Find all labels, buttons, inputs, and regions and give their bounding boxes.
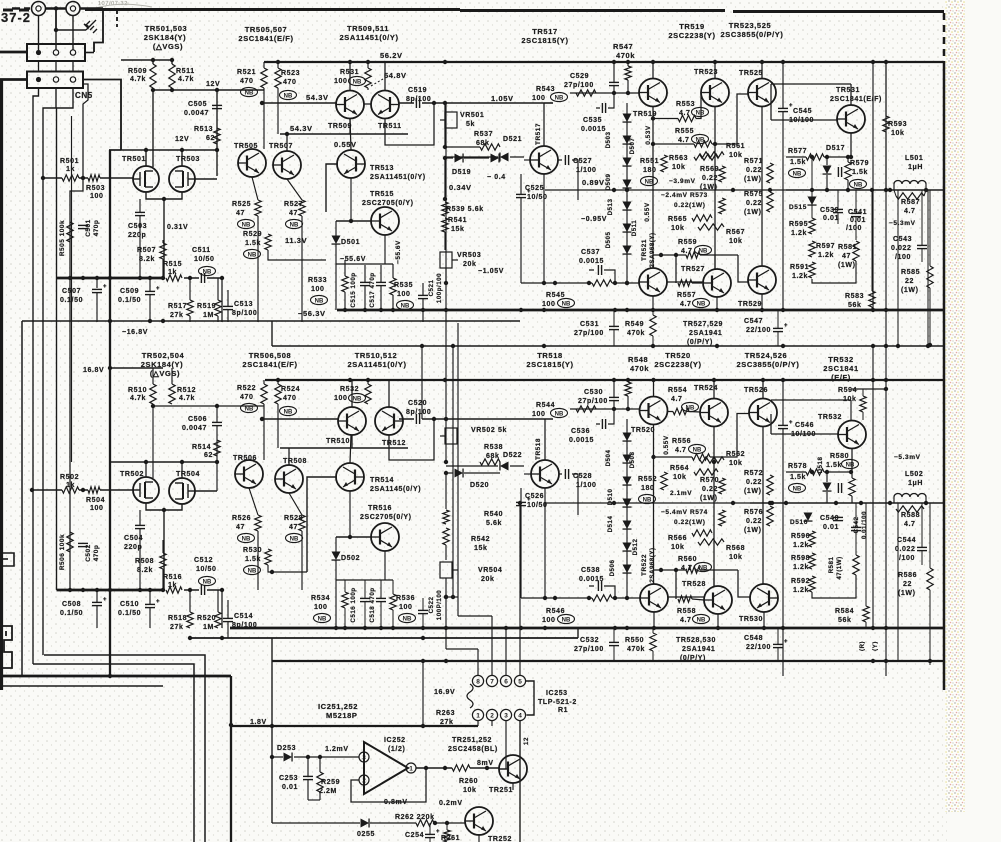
svg-text:TR506,508: TR506,508 (249, 351, 292, 360)
node (215, 88, 219, 92)
svg-text:D518: D518 (817, 457, 824, 474)
node (215, 404, 219, 408)
svg-text:R525: R525 (232, 201, 251, 208)
wire C513 down (227, 310, 229, 322)
wire R529 to TR513 base col (268, 250, 326, 260)
wire R541 down (444, 232, 446, 250)
node (715, 308, 719, 312)
wire (445, 473, 447, 509)
svg-text:TR528: TR528 (682, 581, 706, 588)
svg-text:TR251: TR251 (489, 787, 513, 794)
node (180, 148, 184, 152)
svg-text:C541: C541 (848, 209, 867, 216)
wire R531 bot (367, 88, 369, 90)
svg-text:8p/100: 8p/100 (406, 409, 431, 416)
svg-text:NB: NB (284, 409, 293, 415)
node (888, 188, 892, 192)
node (420, 344, 424, 348)
wire VR col (444, 103, 446, 147)
wire R560 link (654, 569, 739, 571)
connector P1 pin 2 (53, 50, 58, 55)
resistor R573 (719, 198, 725, 214)
svg-text:D516: D516 (790, 519, 808, 526)
svg-text:R529: R529 (243, 231, 262, 238)
wire R559 link (653, 254, 738, 256)
svg-text:(1W): (1W) (700, 495, 718, 502)
wire C519 line (399, 102, 553, 104)
node (229, 723, 233, 727)
wire (921, 551, 923, 565)
svg-text:47(1W): 47(1W) (836, 556, 843, 579)
svg-text:D519: D519 (452, 169, 471, 176)
svg-text:−5.4mV R574: −5.4mV R574 (661, 509, 708, 516)
wire D515 bot (811, 205, 813, 218)
svg-text:(1W): (1W) (700, 184, 718, 191)
svg-text:NB: NB (248, 252, 257, 258)
capacitor C518 (376, 598, 386, 601)
svg-text:16.8V: 16.8V (83, 367, 104, 374)
wire C525 top (520, 174, 522, 194)
svg-text:2SA11451(0/Y): 2SA11451(0/Y) (370, 174, 426, 181)
node (30, 488, 34, 492)
wire (782, 380, 784, 425)
capacitor C254 (425, 834, 435, 837)
node (613, 596, 617, 600)
wire R579 top (847, 157, 849, 162)
svg-text:100P/100: 100P/100 (436, 590, 443, 621)
svg-text:4.7k: 4.7k (130, 76, 146, 83)
IC253 pin 5 (514, 675, 525, 686)
diode chain ch2 element 6 (623, 565, 632, 574)
capacitor C540 (833, 517, 843, 520)
wire C543 top (921, 190, 923, 245)
resistor R506 (67, 532, 73, 552)
svg-text:TR521: TR521 (641, 239, 648, 261)
svg-text:D514: D514 (607, 516, 614, 533)
svg-text:2SA968(Y): 2SA968(Y) (649, 232, 656, 267)
wire TR510 collector (351, 380, 353, 407)
connector P1 pin 3 (70, 50, 75, 55)
resistor R529 (265, 234, 271, 250)
svg-text:/100: /100 (846, 225, 862, 232)
svg-text:100: 100 (334, 395, 347, 402)
node (270, 570, 274, 574)
resistor R522 (261, 384, 267, 404)
wire vertical C (897, 190, 899, 346)
wire pin8 up (477, 649, 479, 675)
svg-text:C503: C503 (128, 223, 147, 230)
node (348, 535, 352, 539)
resistor R531 (365, 68, 371, 88)
svg-text:2SC3855(0/P/Y): 2SC3855(0/P/Y) (720, 30, 783, 39)
svg-text:R571: R571 (744, 158, 763, 165)
capacitor C527 (565, 155, 568, 165)
svg-text:TR511: TR511 (378, 123, 402, 130)
wire (544, 102, 553, 104)
wire CN5 pin1 down harness (33, 88, 39, 664)
node (444, 308, 448, 312)
svg-text:1.2k: 1.2k (818, 252, 834, 259)
diode chain ch2 element 2 (623, 477, 632, 486)
wire R533 top (344, 260, 346, 276)
svg-text:R580: R580 (830, 453, 849, 460)
NB marker R560 (695, 562, 712, 571)
node (349, 219, 353, 223)
wire ch2 -16V rail thick (57, 589, 165, 592)
wire C525 down (520, 198, 522, 283)
resistor R541 (442, 218, 448, 232)
wire R544 line (570, 408, 639, 410)
svg-text:TR523,525: TR523,525 (729, 21, 772, 30)
node (768, 501, 772, 505)
svg-text:D515: D515 (789, 204, 807, 211)
svg-text:0.1/50: 0.1/50 (118, 610, 141, 617)
wire R513 column (216, 90, 218, 176)
IC252 pin 3 (359, 752, 369, 762)
svg-text:R566: R566 (668, 535, 687, 542)
wire TR503 drain (181, 150, 183, 166)
svg-text:100: 100 (334, 78, 347, 85)
wire 16.8V stub (109, 367, 163, 369)
capacitor C519 (416, 98, 419, 108)
wire (925, 497, 927, 503)
svg-text:4.7: 4.7 (680, 617, 692, 624)
node (543, 596, 547, 600)
svg-text:1.2k: 1.2k (793, 564, 809, 571)
svg-text:0.53V: 0.53V (645, 125, 652, 145)
wire D501 down (335, 244, 337, 310)
BP marker C512 (199, 576, 216, 585)
svg-text:100: 100 (532, 95, 545, 102)
resistor R262 zig (416, 820, 434, 826)
node (781, 378, 785, 382)
capacitor C530 (609, 397, 619, 400)
node (651, 455, 655, 459)
node (188, 636, 192, 640)
svg-text:1.2k: 1.2k (791, 230, 807, 237)
svg-text:1M: 1M (203, 312, 214, 319)
resistor R581 (853, 241, 859, 261)
wire P1 right exit (85, 52, 94, 54)
svg-text:R506 100k: R506 100k (59, 534, 66, 570)
NB marker R530 (244, 565, 261, 574)
svg-text:180: 180 (643, 167, 656, 174)
svg-text:100p/100: 100p/100 (436, 273, 443, 303)
handwritten swoosh (96, 4, 152, 8)
svg-text:1.5k: 1.5k (852, 169, 868, 176)
svg-text:(1W): (1W) (744, 488, 762, 495)
wire C511 down (221, 278, 223, 322)
capacitor C528 (565, 469, 568, 479)
wire to TR531 collector (771, 83, 851, 85)
svg-text:56k: 56k (848, 302, 861, 309)
svg-text:NB: NB (793, 486, 802, 492)
svg-text:2SC2705(0/Y): 2SC2705(0/Y) (360, 514, 412, 521)
svg-text:TR531: TR531 (836, 87, 860, 94)
svg-text:8p/100: 8p/100 (232, 310, 257, 317)
svg-text:C543: C543 (893, 236, 912, 243)
node (712, 378, 716, 382)
svg-text:VR504: VR504 (478, 567, 502, 574)
wire R591 to R581 (812, 261, 856, 283)
resistor R561 (700, 152, 724, 158)
svg-text:10k: 10k (729, 152, 742, 159)
wire (301, 531, 303, 590)
connector CN5 pin 2 (53, 77, 58, 82)
svg-text:5: 5 (518, 678, 522, 685)
svg-text:0.1/50: 0.1/50 (60, 610, 83, 617)
wire C539 top (837, 190, 839, 209)
resistor R551 (661, 155, 667, 172)
wire TR529 emitter (761, 294, 763, 310)
resistor R260 zig (452, 765, 470, 771)
wire gate line TR501 (43, 177, 133, 179)
wire R595 col (811, 157, 813, 218)
wire TR511 emitter loop (385, 103, 434, 145)
svg-text:+: + (789, 103, 793, 109)
svg-text:R591: R591 (790, 264, 809, 271)
svg-text:3: 3 (362, 754, 366, 761)
wire (257, 531, 259, 590)
node (884, 378, 888, 382)
transistor TR520 (640, 397, 668, 425)
wire TR519 emitter chain (652, 107, 654, 269)
svg-text:R559: R559 (678, 239, 697, 246)
svg-text:0.01: 0.01 (850, 217, 866, 224)
NB marker R545 (558, 298, 575, 307)
svg-text:2SC2238(Y): 2SC2238(Y) (654, 360, 701, 369)
svg-text:2SC1841(E/F): 2SC1841(E/F) (242, 360, 297, 369)
resistor R546 zig (592, 595, 612, 601)
connector CN5 pin 3 (70, 77, 75, 82)
resistor R568 (698, 539, 724, 545)
svg-text:100: 100 (532, 411, 545, 418)
resistor R571 (767, 163, 773, 183)
svg-text:NB: NB (401, 303, 410, 309)
svg-text:R522: R522 (237, 385, 256, 392)
transistor TR251 (499, 755, 527, 783)
wire R556 path to TR526 base (654, 414, 750, 458)
svg-text:R503: R503 (86, 185, 105, 192)
resistor R574 (719, 510, 725, 526)
resistor R530 (265, 549, 271, 565)
wire R536 out to feedback verticals (446, 596, 458, 598)
svg-text:R509: R509 (128, 68, 147, 75)
resistor R538 (480, 459, 500, 465)
resistor R558 zig (678, 596, 692, 602)
NB marker R528 (286, 533, 303, 542)
node (276, 378, 280, 382)
wire R579 bot (847, 180, 849, 190)
svg-text:2SK184(Y): 2SK184(Y) (141, 360, 184, 369)
svg-text:TR514: TR514 (370, 477, 394, 484)
capacitor C526 (516, 502, 526, 505)
transistor TR501 (FET) (133, 166, 159, 192)
wire (344, 580, 346, 592)
IC253 pin 7 (486, 675, 497, 686)
node (810, 188, 814, 192)
capacitor C542b (838, 483, 841, 493)
wire C503 stub (139, 199, 141, 212)
svg-text:0.0015: 0.0015 (569, 437, 594, 444)
svg-text:R555: R555 (675, 128, 694, 135)
svg-text:22: 22 (905, 278, 914, 285)
node (768, 188, 772, 192)
wire TR514 emitter down (349, 491, 351, 537)
svg-text:0.0047: 0.0047 (182, 425, 207, 432)
node (713, 60, 717, 64)
svg-text:C511: C511 (192, 247, 211, 254)
svg-text:C548: C548 (744, 635, 763, 642)
resistor R569 (719, 166, 725, 182)
wire top border middle (460, 9, 725, 12)
wire J1 to P1 pin1 (38, 16, 40, 51)
wire mid vertical (445, 103, 447, 419)
wire TR532 emitter (851, 449, 853, 473)
wire R517 top (189, 278, 191, 300)
svg-text:R530: R530 (243, 547, 262, 554)
transistor TR521 (639, 268, 667, 296)
transistor TR513 (337, 150, 365, 178)
wire TR525 collector (761, 62, 763, 79)
resistor R543 zig (576, 90, 596, 96)
node (343, 308, 347, 312)
node (162, 197, 166, 201)
svg-text:TR503: TR503 (176, 156, 200, 163)
svg-text:TR520: TR520 (665, 351, 691, 360)
node (542, 281, 546, 285)
svg-text:4.7: 4.7 (678, 137, 690, 144)
svg-text:TR512: TR512 (382, 440, 406, 447)
wire L501 right (925, 184, 927, 190)
node (834, 501, 838, 505)
svg-text:D504: D504 (605, 450, 612, 467)
resistor R562 (700, 457, 724, 463)
svg-text:2SA1941: 2SA1941 (689, 330, 722, 337)
capacitor C529 (609, 82, 619, 85)
resistor R584 (863, 606, 869, 622)
svg-text:C254: C254 (405, 832, 424, 839)
node (731, 501, 735, 505)
svg-text:470k: 470k (616, 51, 635, 60)
wire (171, 368, 173, 384)
svg-text:/100: /100 (895, 254, 911, 261)
wire TR516 emitter down (384, 551, 386, 580)
wire IC253 bracket (526, 681, 534, 715)
wire (307, 780, 309, 800)
svg-text:+: + (784, 323, 788, 329)
resistor R509 (150, 64, 156, 88)
wire pin3 to TR251 (499, 744, 506, 769)
NB marker R532 (349, 393, 366, 402)
node (924, 188, 928, 192)
node (518, 501, 522, 505)
node (151, 58, 155, 62)
svg-text:R556: R556 (672, 438, 691, 445)
svg-text:NB: NB (242, 222, 251, 228)
node (81, 588, 85, 592)
svg-text:100: 100 (314, 604, 327, 611)
wire (652, 336, 654, 346)
node (421, 308, 425, 312)
node (924, 501, 928, 505)
svg-text:R575: R575 (744, 191, 763, 198)
node (220, 276, 224, 280)
node (760, 308, 764, 312)
svg-text:NB: NB (693, 447, 702, 453)
connector block P1 (27, 44, 85, 61)
wire harness jog to R505 column (70, 178, 83, 590)
NB marker R529 (244, 249, 261, 258)
svg-text:12: 12 (523, 737, 530, 745)
svg-text:C546: C546 (795, 422, 814, 429)
transistor TR503 (FET) (169, 166, 195, 192)
wire R519 top (217, 278, 219, 300)
wire (652, 310, 654, 315)
resistor R579 zig (845, 162, 851, 180)
node (444, 281, 448, 285)
transistor TR531 (837, 105, 865, 133)
wire TR517 base (524, 159, 530, 161)
node (68, 588, 72, 592)
capacitor C538 (598, 581, 601, 591)
svg-text:R583: R583 (845, 293, 864, 300)
node (276, 60, 280, 64)
svg-text:6: 6 (504, 678, 508, 685)
wire R507 top (162, 240, 164, 243)
node (391, 308, 395, 312)
wire (277, 380, 279, 384)
node (884, 60, 888, 64)
node (443, 197, 447, 201)
wire harness line D (83, 84, 88, 178)
wire R509 R511 top feed (121, 59, 172, 61)
wire TR503 gate (195, 178, 217, 180)
diode chain element 1 (623, 136, 632, 145)
node (444, 471, 448, 475)
svg-text:R581: R581 (828, 557, 835, 574)
svg-text:5.6k: 5.6k (486, 520, 502, 527)
svg-text:−55.6V: −55.6V (340, 256, 366, 263)
node (674, 568, 678, 572)
svg-text:− 0.4: − 0.4 (487, 174, 506, 181)
wire ch2 output line (750, 502, 944, 504)
capacitor C503 (135, 212, 145, 215)
node (170, 58, 174, 62)
capacitor C525 (516, 194, 526, 197)
svg-text:R550: R550 (625, 637, 644, 644)
wire C536 (596, 409, 614, 424)
svg-text:27p/100: 27p/100 (578, 398, 608, 405)
resistor R577 (806, 154, 824, 160)
connector block CN5 (27, 72, 83, 89)
wire C515 down (364, 286, 366, 310)
svg-text:2SA11451(0/Y): 2SA11451(0/Y) (347, 360, 406, 369)
IC253 pin 1 (472, 709, 483, 720)
capacitor C543 (917, 245, 927, 248)
svg-text:R260: R260 (459, 778, 478, 785)
svg-text:0.0015: 0.0015 (581, 126, 606, 133)
svg-text:NB: NB (203, 579, 212, 585)
wire CN5 pin3 down harness (57, 88, 74, 590)
wire ch2 feed (153, 405, 264, 407)
svg-text:C522: C522 (428, 597, 435, 614)
wire step2 (271, 638, 273, 661)
transistor TR511 (371, 91, 399, 119)
IC253 pin 4 (514, 709, 525, 720)
node (68, 276, 72, 280)
node (270, 724, 274, 728)
